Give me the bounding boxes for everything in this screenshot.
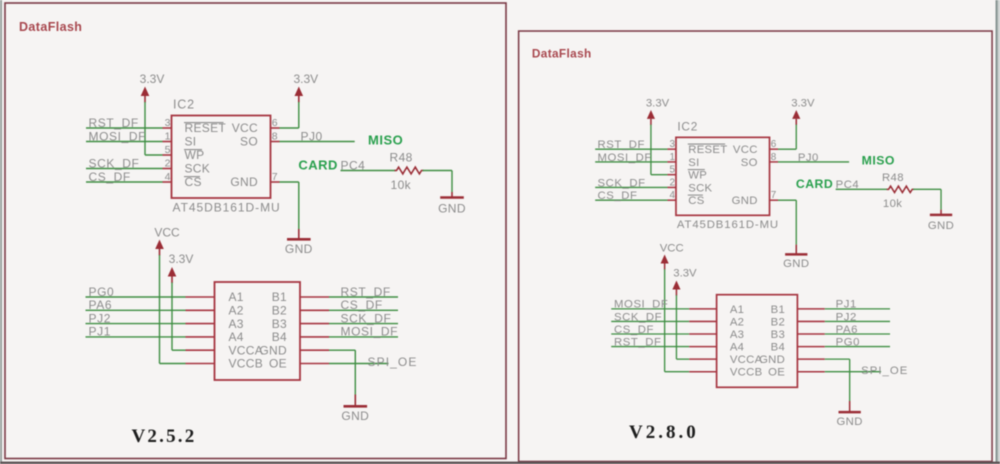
- svg-text:VCC: VCC: [154, 226, 180, 240]
- svg-text:PJ2: PJ2: [89, 311, 111, 325]
- svg-text:CS: CS: [185, 175, 202, 189]
- svg-text:CS: CS: [688, 195, 704, 207]
- svg-text:PG0: PG0: [89, 285, 115, 299]
- svg-text:B1: B1: [272, 290, 287, 304]
- svg-text:SCK_DF: SCK_DF: [614, 311, 662, 323]
- svg-text:MOSI_DF: MOSI_DF: [614, 299, 668, 311]
- svg-text:3.3V: 3.3V: [646, 98, 670, 110]
- svg-text:MOSI_DF: MOSI_DF: [341, 325, 399, 339]
- svg-text:V2.8.0: V2.8.0: [629, 422, 699, 443]
- svg-text:PJ1: PJ1: [89, 325, 111, 339]
- svg-text:VCCB: VCCB: [730, 367, 763, 379]
- svg-text:3.3V: 3.3V: [791, 98, 815, 110]
- svg-text:PJ2: PJ2: [836, 311, 857, 323]
- svg-text:RESET: RESET: [688, 144, 727, 156]
- svg-text:SCK_DF: SCK_DF: [341, 311, 392, 325]
- svg-text:SI: SI: [185, 135, 197, 149]
- svg-text:1: 1: [165, 130, 171, 142]
- svg-text:VCCA: VCCA: [229, 343, 264, 357]
- svg-text:SCK_DF: SCK_DF: [598, 177, 646, 189]
- svg-text:VCC: VCC: [733, 144, 758, 156]
- svg-text:A4: A4: [730, 342, 744, 354]
- svg-text:AT45DB161D-MU: AT45DB161D-MU: [677, 219, 779, 231]
- svg-text:7: 7: [771, 190, 777, 201]
- svg-text:B4: B4: [272, 330, 287, 344]
- svg-text:GND: GND: [837, 416, 863, 428]
- svg-text:B1: B1: [771, 304, 785, 316]
- svg-text:8: 8: [272, 130, 278, 142]
- svg-text:3: 3: [165, 117, 171, 129]
- svg-text:A2: A2: [229, 304, 244, 318]
- svg-text:A1: A1: [730, 304, 744, 316]
- svg-text:8: 8: [771, 152, 777, 163]
- svg-text:CARD: CARD: [298, 157, 338, 172]
- svg-text:3: 3: [670, 139, 676, 150]
- svg-text:SI: SI: [688, 157, 699, 169]
- svg-text:PJ0: PJ0: [798, 152, 819, 164]
- svg-text:B3: B3: [272, 317, 287, 331]
- svg-text:GND: GND: [438, 202, 466, 216]
- svg-text:GND: GND: [928, 220, 954, 232]
- svg-text:RST_DF: RST_DF: [614, 336, 661, 348]
- svg-text:RESET: RESET: [185, 121, 227, 135]
- svg-text:MOSI_DF: MOSI_DF: [89, 129, 147, 143]
- svg-text:DataFlash: DataFlash: [19, 20, 82, 34]
- svg-text:2: 2: [165, 157, 171, 169]
- svg-text:3.3V: 3.3V: [673, 268, 697, 280]
- svg-text:CS_DF: CS_DF: [598, 190, 638, 202]
- svg-text:1: 1: [670, 152, 676, 163]
- svg-text:6: 6: [272, 117, 278, 129]
- svg-text:B3: B3: [771, 329, 785, 341]
- svg-text:SO: SO: [741, 157, 758, 169]
- svg-text:SCK: SCK: [185, 162, 211, 176]
- svg-text:SPI_OE: SPI_OE: [861, 365, 908, 377]
- svg-text:DataFlash: DataFlash: [532, 46, 592, 60]
- svg-text:CS_DF: CS_DF: [341, 298, 383, 312]
- svg-text:V2.5.2: V2.5.2: [132, 426, 197, 447]
- svg-text:3.3V: 3.3V: [293, 72, 318, 86]
- svg-text:OE: OE: [768, 367, 785, 379]
- svg-text:GND: GND: [285, 242, 313, 256]
- svg-text:GND: GND: [732, 195, 758, 207]
- svg-text:MISO: MISO: [368, 133, 403, 148]
- svg-text:A3: A3: [730, 329, 744, 341]
- svg-text:GND: GND: [759, 354, 785, 366]
- svg-text:4: 4: [165, 171, 171, 183]
- svg-text:A3: A3: [229, 317, 244, 331]
- svg-text:CS_DF: CS_DF: [89, 170, 131, 184]
- svg-text:WP: WP: [185, 148, 205, 162]
- svg-text:AT45DB161D-MU: AT45DB161D-MU: [173, 201, 281, 215]
- svg-text:MISO: MISO: [862, 154, 895, 168]
- svg-text:SO: SO: [240, 135, 258, 149]
- svg-text:RST_DF: RST_DF: [598, 139, 645, 151]
- svg-text:CS_DF: CS_DF: [614, 324, 654, 336]
- svg-text:OE: OE: [269, 357, 287, 371]
- svg-text:B2: B2: [272, 304, 287, 318]
- svg-text:VCC: VCC: [660, 243, 684, 255]
- svg-text:VCCA: VCCA: [730, 354, 763, 366]
- svg-text:CARD: CARD: [796, 177, 833, 191]
- svg-text:A4: A4: [229, 330, 244, 344]
- svg-text:2: 2: [670, 177, 676, 188]
- svg-text:PG0: PG0: [836, 336, 860, 348]
- svg-text:MOSI_DF: MOSI_DF: [598, 152, 652, 164]
- svg-text:B2: B2: [771, 316, 785, 328]
- svg-text:GND: GND: [783, 258, 809, 270]
- svg-text:RST_DF: RST_DF: [341, 285, 391, 299]
- svg-text:VCCB: VCCB: [229, 357, 264, 371]
- svg-text:5: 5: [670, 165, 676, 176]
- svg-text:GND: GND: [341, 409, 369, 423]
- svg-text:VCC: VCC: [232, 121, 258, 135]
- svg-text:WP: WP: [688, 170, 707, 182]
- svg-text:A1: A1: [229, 290, 244, 304]
- svg-text:3.3V: 3.3V: [140, 72, 165, 86]
- svg-text:IC2: IC2: [173, 98, 195, 112]
- svg-text:IC2: IC2: [677, 120, 698, 134]
- svg-text:5: 5: [165, 144, 171, 156]
- svg-text:4: 4: [670, 190, 676, 201]
- svg-text:PA6: PA6: [836, 324, 858, 336]
- svg-text:GND: GND: [230, 175, 258, 189]
- svg-text:10k: 10k: [883, 198, 902, 210]
- svg-text:7: 7: [272, 171, 278, 183]
- svg-text:SCK: SCK: [688, 182, 712, 194]
- svg-text:6: 6: [771, 139, 777, 150]
- svg-text:PJ1: PJ1: [836, 299, 857, 311]
- svg-text:R48: R48: [390, 151, 413, 165]
- svg-text:R48: R48: [882, 172, 904, 184]
- svg-text:10k: 10k: [391, 178, 412, 192]
- svg-text:GND: GND: [259, 343, 287, 357]
- svg-text:3.3V: 3.3V: [169, 252, 194, 266]
- svg-text:RST_DF: RST_DF: [89, 116, 139, 130]
- svg-text:SCK_DF: SCK_DF: [89, 156, 140, 170]
- svg-text:PA6: PA6: [89, 298, 113, 312]
- svg-text:SPI_OE: SPI_OE: [368, 355, 418, 369]
- svg-text:A2: A2: [730, 316, 744, 328]
- svg-text:PJ0: PJ0: [301, 129, 323, 143]
- svg-text:B4: B4: [771, 342, 785, 354]
